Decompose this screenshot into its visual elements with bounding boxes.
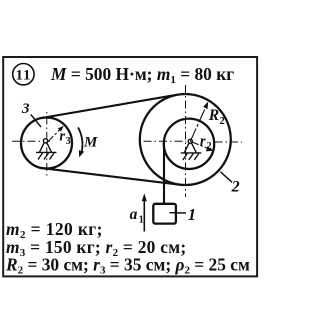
centerline horizontal pulley 2 right part — [215, 141, 243, 143]
pulley 2 outer circle — [140, 94, 231, 185]
leader line to label 1 — [170, 212, 187, 214]
radius arrow r2 — [190, 141, 214, 151]
pulley 2 inner circle — [164, 119, 214, 169]
centerline horizontal pulley 3 — [12, 140, 50, 142]
pin support pulley 2 — [181, 139, 202, 160]
svg-text:1: 1 — [139, 215, 144, 226]
moment arc M — [78, 127, 82, 152]
rope from inner pulley to load — [163, 141, 165, 204]
belt lower tangent line — [44, 168, 180, 184]
leader line for label 2 — [221, 172, 233, 183]
svg-text:M = 500 Н·м; m1 = 80 кг: M = 500 Н·м; m1 = 80 кг — [50, 64, 234, 86]
frame border — [3, 57, 257, 276]
svg-text:11: 11 — [16, 67, 32, 83]
svg-text:1: 1 — [188, 205, 197, 224]
centerline vertical pulley 2 — [185, 85, 187, 197]
centerline horizontal pulley 2 left part — [144, 140, 187, 142]
centerline vertical pulley 3 — [46, 111, 48, 178]
svg-text:2: 2 — [231, 179, 240, 196]
svg-text:3: 3 — [66, 136, 71, 147]
moment arc arrowhead — [79, 150, 84, 157]
belt upper tangent line — [42, 95, 177, 118]
svg-text:r: r — [200, 134, 206, 150]
svg-text:2: 2 — [220, 116, 225, 127]
load box 1 — [153, 204, 176, 224]
acceleration arrow a1 — [142, 193, 147, 231]
svg-text:r: r — [59, 128, 65, 144]
svg-text:a: a — [130, 206, 138, 223]
radius arrow R2 — [190, 102, 208, 142]
svg-text:R2 = 30 см; r3 = 35 см; ρ2 = 2: R2 = 30 см; r3 = 35 см; ρ2 = 25 см — [5, 255, 250, 277]
svg-text:R: R — [208, 107, 219, 124]
radius arrow r3 — [47, 126, 64, 143]
problem number circle 11 — [13, 63, 34, 84]
pin support pulley 3 — [36, 139, 57, 160]
leader line for label 3 — [31, 115, 41, 128]
svg-text:M: M — [83, 135, 98, 151]
pulley 3 circle — [21, 118, 72, 169]
svg-text:3: 3 — [21, 101, 30, 117]
svg-text:2: 2 — [207, 141, 212, 152]
